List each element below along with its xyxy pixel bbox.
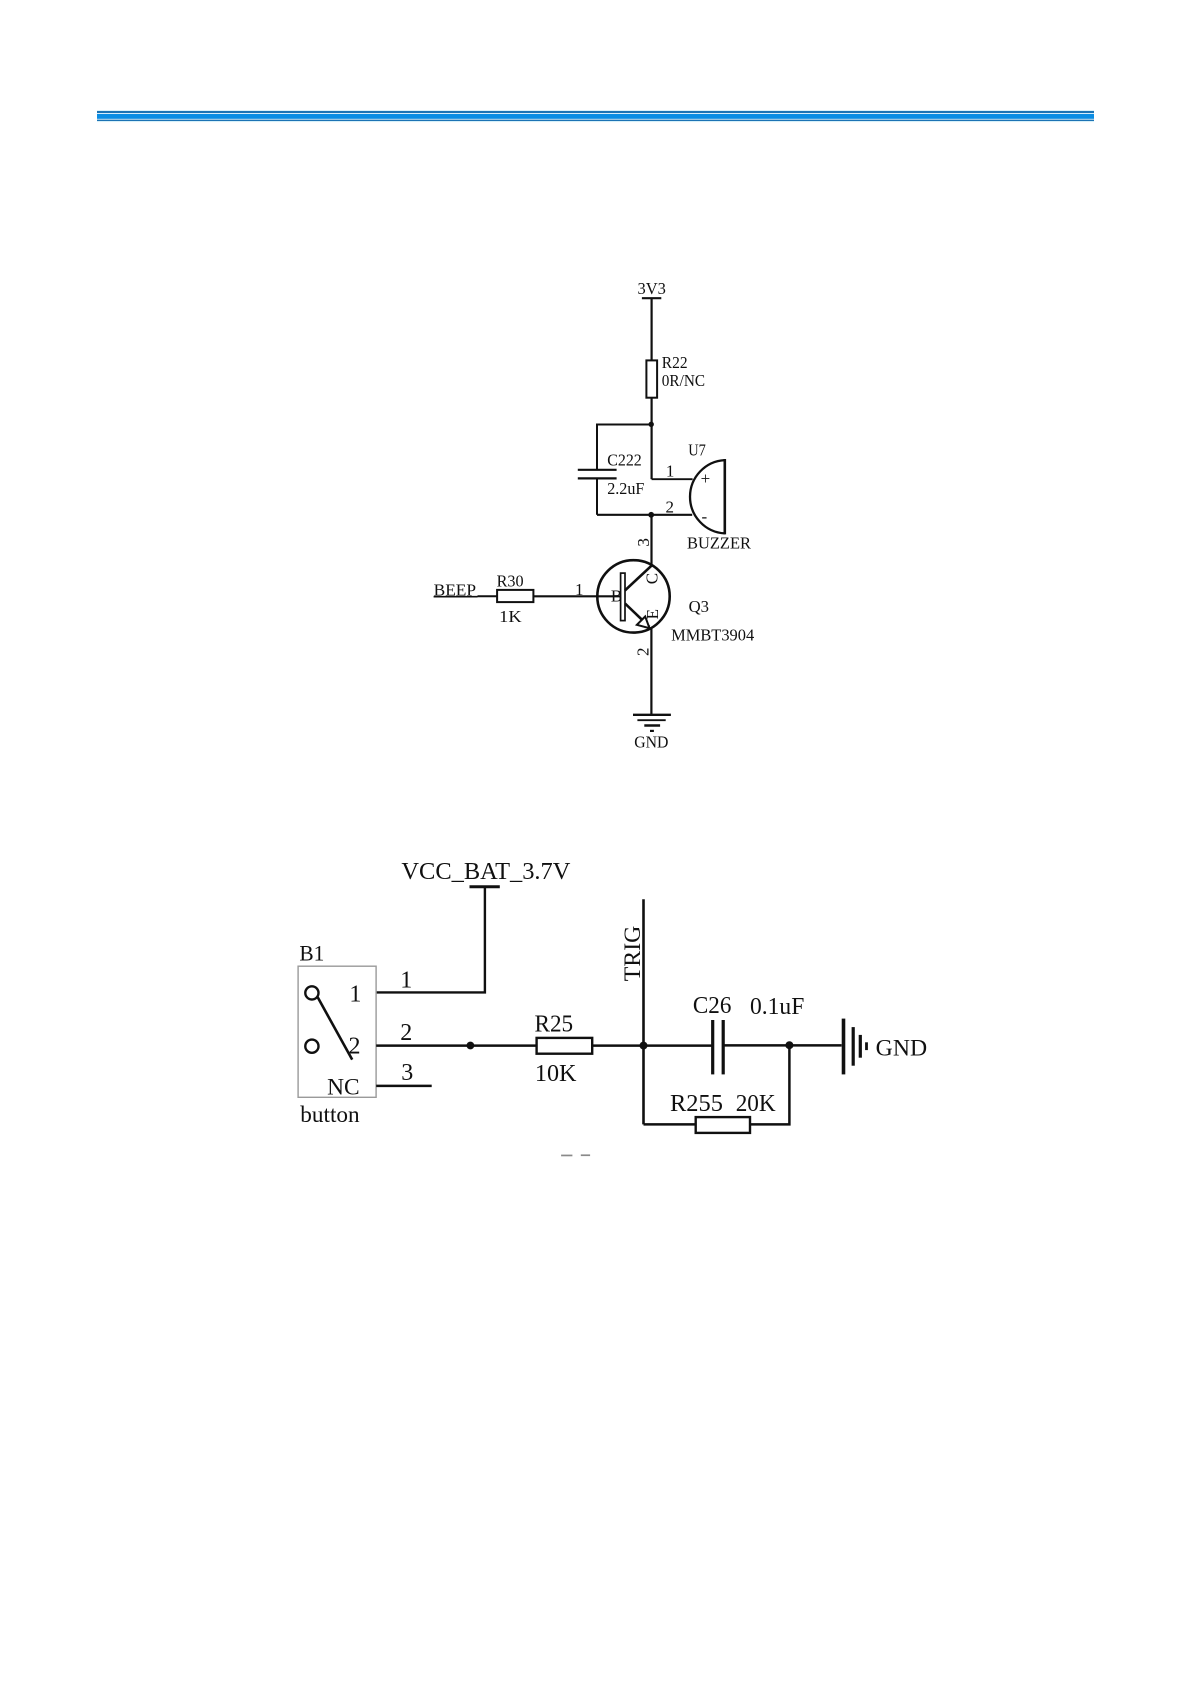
svg-text:C222: C222 (607, 450, 642, 469)
wire TRIG node down to R255 (644, 1123, 696, 1126)
power 3V3 (638, 279, 666, 298)
wire C222 to corner (596, 478, 598, 514)
svg-text:+: + (701, 469, 711, 488)
wire BEEP to R30 (478, 595, 498, 597)
ground GND (633, 715, 671, 752)
capacitor C26 (693, 993, 804, 1074)
pin 2 wire of buzzer (651, 498, 692, 517)
svg-text:-: - (702, 507, 708, 526)
svg-text:1: 1 (349, 982, 361, 1008)
wire down to C222 (596, 424, 598, 470)
svg-text:C: C (643, 573, 662, 584)
resistor R30 (497, 572, 534, 626)
svg-text:GND: GND (876, 1036, 927, 1062)
wire C26 to node C (723, 1044, 789, 1047)
svg-text:R22: R22 (662, 353, 688, 372)
transistor Q3 (597, 560, 754, 644)
svg-text:Q3: Q3 (689, 597, 709, 616)
svg-text:NC: NC (327, 1074, 360, 1099)
svg-text:3V3: 3V3 (638, 279, 666, 298)
node A junction (649, 422, 654, 427)
ground GND rotated (844, 1019, 928, 1075)
wire corner to node B (597, 514, 651, 516)
buzzer U7 (687, 441, 752, 553)
node C junction (785, 1041, 793, 1049)
net label BEEP (434, 580, 478, 599)
resistor R255 (670, 1091, 776, 1133)
svg-text:20K: 20K (736, 1091, 777, 1117)
svg-text:R25: R25 (535, 1011, 574, 1037)
svg-text:C26: C26 (693, 993, 732, 1019)
wire R255 to node C (750, 1045, 789, 1124)
wire node A left (597, 424, 651, 426)
svg-text:button: button (300, 1102, 360, 1128)
emitter wire to ground (633, 627, 652, 715)
wire R22 to node A (650, 398, 652, 425)
svg-text:MMBT3904: MMBT3904 (671, 626, 755, 645)
svg-text:3: 3 (634, 538, 653, 547)
svg-text:R255: R255 (670, 1091, 723, 1117)
power VCC_BAT_3.7V (401, 859, 571, 887)
wire node to C26 (644, 1044, 713, 1047)
wire R25 to TRIG node (592, 1044, 643, 1047)
svg-text:2: 2 (666, 498, 675, 517)
wire VCC to button pin 1 (376, 887, 485, 993)
svg-text:2: 2 (349, 1034, 361, 1060)
svg-text:2: 2 (400, 1020, 412, 1046)
svg-text:1: 1 (400, 968, 412, 994)
svg-text:1: 1 (666, 461, 675, 480)
svg-text:VCC_BAT_3.7V: VCC_BAT_3.7V (401, 859, 571, 885)
svg-text:E: E (643, 609, 662, 619)
wire R30 to base (533, 580, 620, 599)
junction on pin 2 net (467, 1042, 475, 1050)
svg-text:BUZZER: BUZZER (687, 534, 752, 553)
svg-text:1: 1 (575, 580, 584, 599)
resistor R25 (535, 1011, 593, 1087)
wire node C to ground (789, 1044, 841, 1047)
svg-text:GND: GND (634, 732, 668, 751)
svg-text:3: 3 (401, 1060, 413, 1086)
wire node A to buzzer pin 1 (650, 425, 652, 480)
svg-text:0.1uF: 0.1uF (750, 994, 804, 1020)
svg-text:B1: B1 (299, 940, 324, 965)
node B junction (648, 512, 654, 518)
TRIG junction (640, 1042, 648, 1050)
svg-text:2.2uF: 2.2uF (607, 479, 644, 498)
capacitor C222 (578, 450, 645, 498)
button B1 (298, 940, 376, 1128)
svg-text:2: 2 (633, 648, 652, 657)
pin 1 wire of buzzer (652, 461, 693, 480)
svg-text:0R/NC: 0R/NC (662, 371, 705, 390)
wire 3V3 to R22 (650, 298, 652, 360)
wire node B to collector (650, 515, 652, 566)
svg-text:TRIG: TRIG (620, 926, 646, 982)
svg-text:1K: 1K (499, 607, 522, 626)
svg-text:10K: 10K (535, 1061, 577, 1087)
resistor R22 (646, 353, 705, 398)
pin 3 stub wire (376, 1060, 432, 1086)
svg-text:U7: U7 (688, 441, 706, 460)
net TRIG (620, 899, 646, 1124)
pin 2 stub wire (376, 1020, 536, 1046)
svg-text:R30: R30 (497, 572, 524, 591)
top blue rule (97, 110, 1094, 122)
